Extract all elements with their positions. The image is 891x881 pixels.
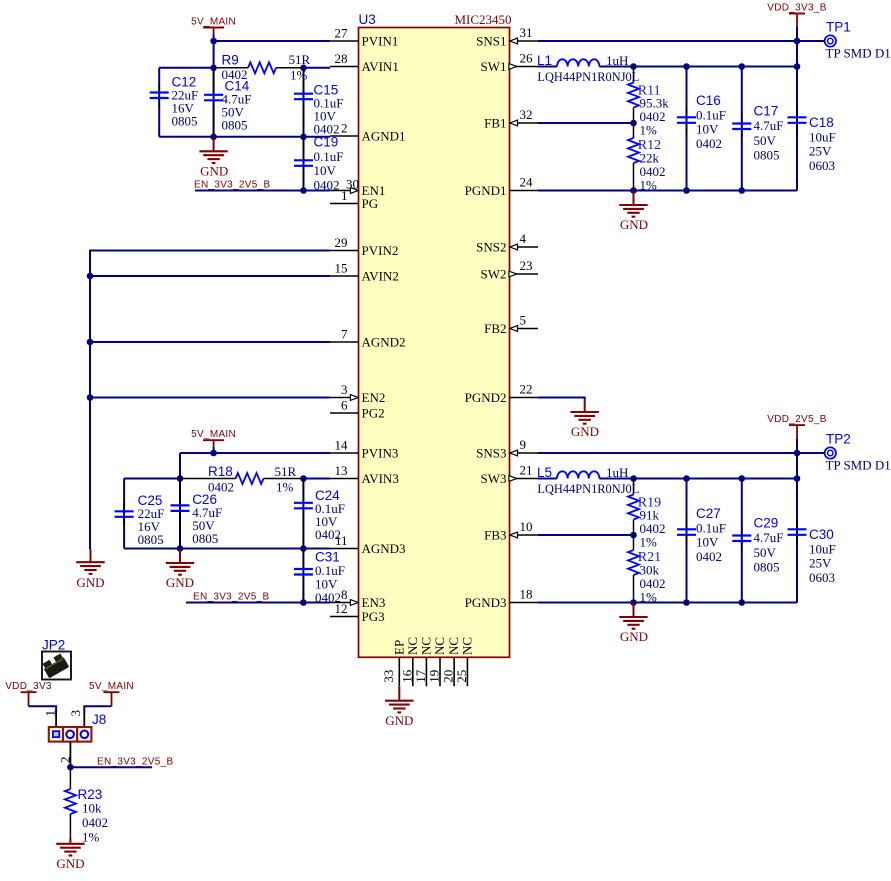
label C18 values [809,115,836,173]
label R21 values [638,550,666,605]
capacitor C17 [732,114,751,140]
svg-text:AVIN2: AVIN2 [362,269,399,284]
ground below R21 [619,603,647,629]
svg-text:PGND3: PGND3 [465,595,507,610]
pin AGND1 (2) [330,121,406,144]
svg-text:EN_3V3_2V5_B: EN_3V3_2V5_B [194,180,270,191]
wire 5V_MAIN mid stem [213,447,215,453]
junction PGND3 rail x=686.5 [683,599,690,606]
label C25 values [138,493,165,547]
junction FB1 node [630,120,637,127]
svg-text:NC: NC [459,637,474,655]
junction trunk AVIN2 [87,273,94,280]
junction PGND3 rail x=633.5 [630,599,637,606]
pin AGND2 (7) [330,327,406,350]
svg-text:C29: C29 [754,516,779,531]
junction PGND3 rail x=741.8 [739,599,746,606]
svg-text:10V: 10V [314,163,337,178]
svg-text:14: 14 [335,438,349,453]
svg-text:1%: 1% [276,480,294,495]
pin NC (25) bottom [454,637,475,686]
svg-text:U3: U3 [359,12,376,27]
svg-text:2: 2 [341,121,348,136]
svg-text:AGND2: AGND2 [362,335,406,350]
svg-text:10V: 10V [696,535,719,550]
junction PGND1 rail x=686.5 [683,187,690,194]
testpoint TP1 [825,35,836,46]
pin NC (16) bottom [399,637,420,686]
pin SW3 (21) [481,463,539,487]
wire C25 top [124,478,180,480]
wire AVIN2 [90,275,330,277]
wire C12 top to R9 node [159,67,213,69]
wire VDD_2V5_B stem [796,439,798,453]
label C26 values [192,492,222,546]
wire FB3 to divider [538,534,634,536]
pin EP (33) bottom [381,640,407,686]
resistor R18 [180,473,303,484]
wire PGND1 rail [538,190,797,192]
svg-text:0402: 0402 [315,590,341,605]
svg-text:25: 25 [454,670,469,683]
wire R9 to AVIN1 [304,67,331,69]
wire AGND2 [90,341,330,343]
wire C19 column [303,137,305,191]
svg-text:33: 33 [381,670,396,683]
junction trunk AGND2 [87,339,94,346]
capacitor C25 [115,501,134,527]
svg-text:TP SMD D1: TP SMD D1 [826,46,891,61]
svg-text:PVIN1: PVIN1 [362,34,399,49]
pin EN1 (30) [330,176,385,198]
svg-text:GND: GND [56,856,84,871]
label GND (PGND2) [571,424,599,439]
resistor R19 [628,479,639,536]
label R23 values [78,787,109,845]
label C14 values [222,79,252,133]
pin AGND3 (11) [330,533,406,556]
capacitor C27 [677,519,696,545]
svg-text:SW3: SW3 [481,471,507,486]
wire C26 column [179,479,181,549]
pin J8-3 stub [83,714,85,727]
pin EN3 (8) [330,587,385,610]
capacitor C31 [294,550,313,601]
svg-text:1%: 1% [640,590,658,605]
svg-text:FB2: FB2 [484,321,506,336]
svg-text:1%: 1% [82,830,100,845]
svg-text:0402: 0402 [208,480,234,495]
resistor R21 [628,535,639,603]
label TP1 [826,20,851,35]
svg-text:AGND3: AGND3 [362,541,406,556]
svg-text:TP SMD D1: TP SMD D1 [826,458,891,473]
label C29 values [754,516,784,575]
pin SNS2 (4) [476,231,538,255]
pin PG2 (6) [330,398,385,421]
pin J8-2 wire [69,742,71,767]
label C24 values [315,488,345,542]
testpoint TP2 [825,447,836,458]
junction 5V_MAIN node [210,38,217,45]
svg-text:51R: 51R [275,464,297,479]
label L5 values [537,465,639,496]
wire SW3 to L5 [538,478,557,480]
wire PVIN2 trunk [90,251,330,550]
svg-text:50V: 50V [754,545,777,560]
wire C17 column [741,67,743,191]
svg-text:0805: 0805 [192,531,218,546]
power VDD_2V5_B [767,414,826,439]
label R11 values [638,83,669,137]
svg-text:0805: 0805 [222,118,248,133]
svg-text:10V: 10V [696,122,719,137]
svg-text:FB1: FB1 [484,116,506,131]
svg-text:0402: 0402 [696,549,722,564]
svg-text:0402: 0402 [82,815,108,830]
capacitor C26 [171,480,190,547]
ground below C26 [166,549,194,575]
pin SNS3 (9) [476,437,538,461]
svg-text:0603: 0603 [809,570,835,585]
wire PGND3 rail [538,602,797,604]
wire SW1 rail [599,66,797,68]
wire C31 column [302,549,304,603]
pin SW1 (26) [481,51,539,75]
pin AVIN3 (13) [330,463,399,486]
junction C26 bottom [177,545,184,552]
junction VDD_2V5_B node [794,450,801,457]
svg-text:25V: 25V [809,556,832,571]
svg-text:26: 26 [520,51,534,66]
svg-text:28: 28 [335,51,348,66]
junction 5V_MAIN mid node [210,450,217,457]
resistor R12 [628,123,639,191]
pin J8-1 stub [55,714,57,727]
svg-text:C27: C27 [696,506,721,521]
junction R18 right / C24 top [300,475,307,482]
power 5V_MAIN (J8) [89,681,134,706]
svg-text:0.1uF: 0.1uF [696,520,726,535]
label C31 values [315,550,345,606]
wire AGND3 rail [124,548,330,550]
svg-text:L5: L5 [537,465,552,480]
svg-text:PG: PG [362,196,379,211]
svg-text:50V: 50V [754,133,777,148]
svg-text:C30: C30 [809,527,834,542]
svg-text:4.7uF: 4.7uF [754,530,784,545]
svg-text:PGND2: PGND2 [465,390,507,405]
capacitor C16 [677,107,696,133]
label GND (EP) [385,713,413,728]
label TP2 comment [826,458,891,473]
svg-text:0603: 0603 [809,158,835,173]
junction R9 right / C15 top [300,65,307,72]
svg-text:1: 1 [43,710,58,717]
junction C14 bottom [210,134,217,141]
pin PGND3 (18) [465,587,538,611]
label L1 designator [537,53,552,68]
capacitor C18 [788,107,807,133]
svg-text:10: 10 [520,519,533,534]
wire EN_3V3_2V5_B to EN1 [195,190,330,192]
svg-text:L1: L1 [537,53,552,68]
junction R18 left node [177,475,184,482]
svg-text:1%: 1% [290,68,308,83]
svg-text:GND: GND [620,629,648,644]
net label EN_3V3_2V5_B (J8) [97,757,173,768]
svg-text:0.1uF: 0.1uF [696,107,726,122]
label R18 values [208,464,297,495]
wire down to R9 row [213,41,215,68]
svg-text:EN2: EN2 [362,390,386,405]
svg-text:10uF: 10uF [809,129,836,144]
wire C29 column [741,479,743,603]
svg-text:0805: 0805 [138,532,164,547]
wire PVIN3 row [180,452,330,454]
svg-text:5V_MAIN: 5V_MAIN [89,681,134,692]
svg-text:10k: 10k [82,801,102,816]
svg-text:23: 23 [520,258,533,273]
svg-text:24: 24 [520,175,534,190]
pin SNS1 (31) [476,25,538,49]
svg-text:51R: 51R [289,52,311,67]
label J8 pin 2 [57,757,72,764]
svg-text:0402: 0402 [222,67,248,82]
svg-text:1: 1 [341,188,348,203]
svg-text:29: 29 [335,235,348,250]
svg-text:GND: GND [200,164,228,179]
ground PGND2 [571,400,599,424]
svg-text:0402: 0402 [315,527,341,542]
junction SW3 rail x=741.8 [739,475,746,482]
junction VDD_3V3_B node [794,38,801,45]
junction SW3 rail x=686.5 [683,475,690,482]
capacitor C15 [294,69,313,136]
svg-text:6: 6 [341,398,348,413]
svg-text:5: 5 [520,313,527,328]
junction FB3 node [630,532,637,539]
junction C31 bottom on EN3 wire [300,599,307,606]
svg-text:32: 32 [520,107,533,122]
label TP2 [826,432,851,447]
label GND (output1) [620,217,648,232]
svg-text:0.1uF: 0.1uF [314,149,344,164]
wire C16 column [686,67,688,191]
wire SNS1 to TP1 [538,40,824,42]
pin FB1 (32) [484,107,538,131]
svg-text:0402: 0402 [314,177,340,192]
wire FB1 to divider [538,122,634,124]
label R9 values [222,52,311,82]
svg-text:AGND1: AGND1 [362,129,406,144]
svg-text:PVIN2: PVIN2 [362,243,399,258]
svg-text:C18: C18 [809,115,834,130]
pin PVIN3 (14) [330,438,398,461]
svg-text:1%: 1% [640,535,658,550]
pin NC (19) bottom [427,637,448,686]
svg-text:LQH44PN1R0NJ0L: LQH44PN1R0NJ0L [537,482,639,496]
svg-text:NC: NC [432,637,447,655]
svg-text:J8: J8 [92,712,106,727]
wire C30 column [796,453,798,603]
label R19 values [638,495,666,549]
svg-text:PG2: PG2 [362,406,385,421]
wire R18 to AVIN3 [303,478,330,480]
svg-text:AVIN1: AVIN1 [362,59,399,74]
power 5V_MAIN (top) [191,16,236,34]
svg-text:GND: GND [385,713,413,728]
junction SW1 rail x=633.5 [630,63,637,70]
connector J8 [49,727,92,742]
wire C14 column [213,68,215,137]
wire PGND2 to ground [538,398,585,400]
svg-text:0402: 0402 [696,136,722,151]
label C15 values [314,83,344,137]
svg-text:1%: 1% [640,123,658,138]
power VDD_3V3_B [767,2,826,27]
wire SW1 to L1 [538,66,557,68]
svg-text:10uF: 10uF [809,541,836,556]
pin NC (17) bottom [413,637,434,686]
label C12 values [172,75,199,129]
svg-text:5V_MAIN: 5V_MAIN [191,16,236,27]
wire SW3 rail [599,478,797,480]
svg-text:SNS2: SNS2 [476,240,506,255]
inductor L1 [557,59,599,66]
pin PGND1 (24) [465,175,538,199]
label U3 designator [359,12,376,27]
label GND (below C14) [200,164,228,179]
label C27 values [696,506,726,564]
svg-text:1%: 1% [640,178,658,193]
label J8 [92,712,106,727]
capacitor C19 [294,138,313,189]
wire EN_3V3_2V5_B stub [70,766,152,768]
svg-text:C16: C16 [696,93,721,108]
label R12 values [638,138,666,193]
svg-text:18: 18 [520,587,533,602]
label C17 values [754,104,784,163]
svg-text:9: 9 [520,437,527,452]
svg-text:22: 22 [520,382,533,397]
label J8 pin 3 [68,710,83,717]
junction C24 bottom / C31 top [300,545,307,552]
svg-text:13: 13 [335,463,348,478]
label C16 values [696,93,726,151]
label GND (below C26) [166,575,194,590]
svg-text:MIC23450: MIC23450 [454,12,511,27]
junction PGND1 rail x=633.5 [630,187,637,194]
svg-text:PGND1: PGND1 [465,183,507,198]
svg-text:19: 19 [427,670,442,683]
wire 5V_MAIN stem to node [213,35,215,42]
label TP1 comment [826,46,891,61]
label L5 designator [537,465,552,480]
ground EP [385,686,413,712]
svg-text:27: 27 [335,26,349,41]
label JP2 [42,638,65,653]
junction SW1 rail x=797 [794,63,801,70]
wire EN_3V3_2V5_B to EN3 [186,602,330,604]
svg-text:SNS3: SNS3 [476,446,506,461]
wire C24 column [302,479,304,549]
svg-text:3: 3 [68,710,83,717]
label C19 values [314,135,344,193]
svg-text:EN_3V3_2V5_B: EN_3V3_2V5_B [193,592,269,603]
svg-text:GND: GND [76,575,104,590]
capacitor C24 [294,480,313,547]
svg-text:C19: C19 [314,135,339,150]
svg-text:VDD_3V3_B: VDD_3V3_B [767,2,826,13]
wire VDD_3V3 to J8 pin1 [29,706,57,714]
svg-text:4.7uF: 4.7uF [754,118,784,133]
svg-text:TP2: TP2 [826,432,851,447]
svg-text:4: 4 [520,231,527,246]
pin FB3 (10) [484,519,538,543]
svg-text:R18: R18 [208,464,233,479]
svg-text:SNS1: SNS1 [476,34,506,49]
svg-text:LQH44PN1R0NJ0L: LQH44PN1R0NJ0L [537,70,639,84]
label GND (output3) [620,629,648,644]
resistor R23 [65,767,76,838]
wire C27 column [686,479,688,603]
svg-text:FB3: FB3 [484,528,506,543]
wire C18 column [796,41,798,191]
svg-text:AVIN3: AVIN3 [362,471,399,486]
svg-text:0805: 0805 [172,114,198,129]
wire C15 column [303,68,305,137]
svg-text:21: 21 [520,463,533,478]
pin AVIN1 (28) [330,51,399,74]
svg-text:7: 7 [341,327,348,342]
resistor R9 [214,62,304,73]
svg-text:15: 15 [335,261,348,276]
svg-text:PG3: PG3 [362,609,385,624]
label GND (trunk) [76,575,104,590]
pin FB2 (5) [484,313,538,337]
junction C15 bottom / C19 top [300,134,307,141]
capacitor C29 [732,526,751,552]
jumper JP2 picture [41,652,71,680]
label C30 values [809,527,836,585]
pin EN2 (3) [330,382,385,405]
pin SW2 (23) [481,258,539,282]
junction SW1 rail x=686.5 [683,63,690,70]
pin NC (20) bottom [441,637,462,686]
pin AVIN2 (15) [330,261,399,284]
svg-text:3: 3 [341,382,348,397]
wire VDD_3V3_B stem [796,27,798,41]
svg-text:31: 31 [520,25,533,40]
junction C19 bottom on EN1 wire [300,187,307,194]
svg-text:GND: GND [166,575,194,590]
junction SW3 rail x=633.5 [630,475,637,482]
ground below C14 [199,137,227,163]
wire SNS3 to TP2 [538,452,824,454]
svg-text:0805: 0805 [754,147,780,162]
label MIC23450 part name [454,12,511,27]
svg-text:GND: GND [620,217,648,232]
wire 5V_MAIN to PVIN1 [214,40,330,42]
svg-text:5V_MAIN: 5V_MAIN [191,429,236,440]
junction trunk EN2 [87,394,94,401]
svg-text:C17: C17 [754,104,779,119]
pin PG3 (12) [330,601,385,624]
wire down to R18 row [179,453,181,479]
junction R9 left node [210,65,217,72]
capacitor C14 [204,69,223,136]
